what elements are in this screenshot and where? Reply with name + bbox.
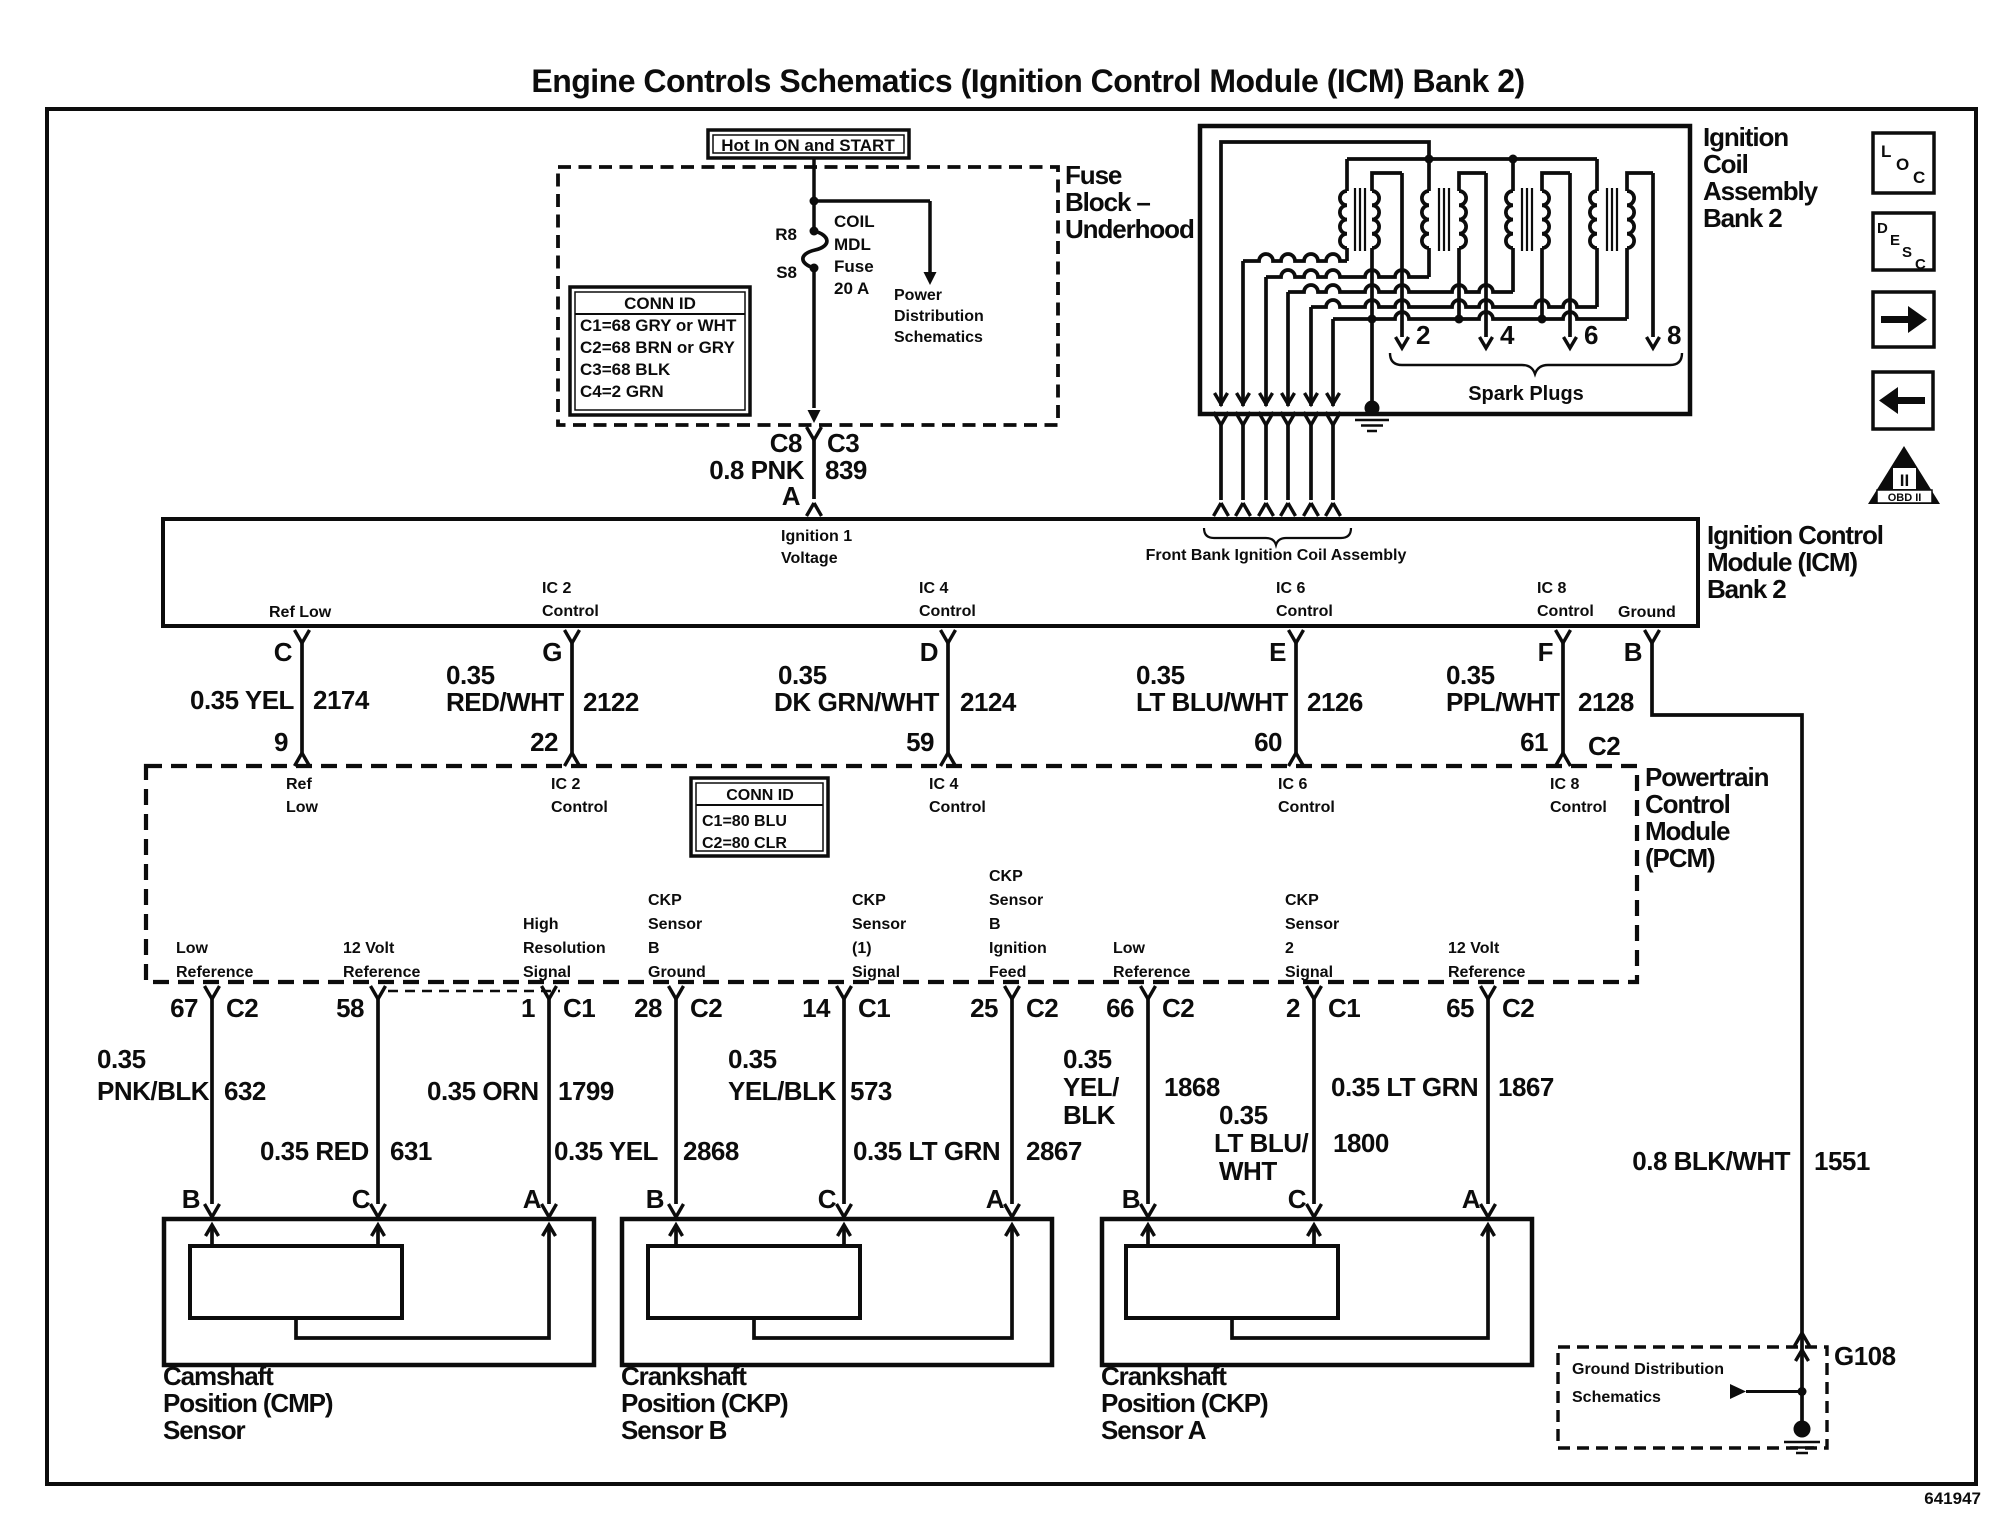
- svg-text:59: 59: [906, 727, 934, 757]
- wire: ground bus drop to case ground: [1370, 319, 1374, 404]
- CONN ID table (PCM): [691, 778, 828, 856]
- svg-text:B: B: [182, 1184, 200, 1214]
- svg-text:0.35 LT GRN: 0.35 LT GRN: [853, 1136, 1000, 1166]
- svg-text:Sensor A: Sensor A: [1101, 1415, 1207, 1445]
- wire E: ICM pin E to PCM pin 60: [1289, 630, 1304, 766]
- CKP B pin B arrow: [670, 1225, 683, 1246]
- transformer T4 (cyl 8 coil): [1590, 159, 1653, 319]
- svg-text:C2=68 BRN or GRY: C2=68 BRN or GRY: [580, 338, 735, 357]
- svg-text:IC 4: IC 4: [919, 580, 948, 597]
- wire G: ICM pin G to PCM pin 22: [565, 630, 580, 766]
- Fuse Block - Underhood dashed box: [558, 167, 1058, 425]
- ICM pin name: IC 8 Control: [1537, 580, 1594, 620]
- wire label 0.35 PPL/WHT: [1446, 660, 1560, 717]
- svg-text:CKP: CKP: [648, 892, 682, 909]
- wire: PCM pin 58 to CMP sensor C: [371, 986, 386, 1220]
- fuse F8 COIL MDL 20A element: [803, 227, 827, 273]
- wire: T4 primary return (with hops): [1311, 300, 1597, 307]
- svg-text:C: C: [1915, 256, 1926, 273]
- svg-text:Signal: Signal: [852, 964, 900, 981]
- label: Crankshaft Position (CKP) Sensor A: [1101, 1361, 1268, 1445]
- svg-text:66: 66: [1106, 993, 1134, 1023]
- svg-text:1: 1: [521, 993, 535, 1023]
- svg-text:61: 61: [1520, 727, 1548, 757]
- arrows at coil box bottom exits: [1215, 393, 1340, 404]
- label: Crankshaft Position (CKP) Sensor B: [621, 1361, 788, 1445]
- svg-text:Ground: Ground: [648, 964, 706, 981]
- svg-text:60: 60: [1254, 727, 1282, 757]
- svg-text:2128: 2128: [1578, 687, 1634, 717]
- svg-text:C2: C2: [690, 993, 722, 1023]
- arrow link to ground distribution schematics: [1730, 1384, 1807, 1399]
- CKP A sensor inner element box: [1126, 1246, 1338, 1318]
- svg-text:67: 67: [170, 993, 198, 1023]
- wire: PCM pin 65 to CKP A sensor A: [1481, 986, 1496, 1220]
- wire: PCM pin 67 to CMP sensor B: [205, 986, 220, 1220]
- ground symbol G108: [1784, 1421, 1820, 1454]
- PCM pin name: Low Reference (pin 66): [1113, 940, 1190, 981]
- svg-text:4: 4: [1500, 320, 1515, 350]
- svg-text:Control: Control: [1645, 789, 1730, 819]
- svg-text:2126: 2126: [1307, 687, 1363, 717]
- svg-text:DK GRN/WHT: DK GRN/WHT: [774, 687, 939, 717]
- icon: DESC button: [1873, 213, 1934, 273]
- node: ground bus junction T1: [1368, 315, 1377, 324]
- svg-text:CONN ID: CONN ID: [624, 294, 696, 313]
- svg-text:14: 14: [802, 993, 831, 1023]
- svg-text:1800: 1800: [1333, 1128, 1389, 1158]
- PCM pin name: CKP Sensor (1) Signal (pin 14): [852, 892, 906, 981]
- wire label 0.35 RED/WHT: [446, 660, 564, 717]
- wire label 0.35 PNK/BLK: [97, 1044, 210, 1106]
- svg-text:C: C: [1913, 168, 1925, 187]
- svg-text:G108: G108: [1834, 1341, 1896, 1371]
- svg-text:0.35: 0.35: [446, 660, 495, 690]
- wire: PCM pin 14 to CKP B sensor C: [837, 986, 852, 1220]
- svg-text:Schematics: Schematics: [894, 329, 983, 346]
- svg-text:0.35 YEL: 0.35 YEL: [190, 685, 295, 715]
- svg-text:Position (CKP): Position (CKP): [1101, 1388, 1268, 1418]
- svg-text:C1: C1: [563, 993, 595, 1023]
- PCM pin name: CKP Sensor B Ignition Feed (pin 25): [989, 868, 1047, 981]
- svg-text:Signal: Signal: [1285, 964, 1333, 981]
- svg-text:65: 65: [1446, 993, 1474, 1023]
- svg-text:641947: 641947: [1924, 1489, 1981, 1508]
- svg-text:IC 6: IC 6: [1278, 776, 1307, 793]
- svg-text:C4=2 GRN: C4=2 GRN: [580, 382, 664, 401]
- svg-text:Ignition: Ignition: [1703, 122, 1788, 152]
- svg-text:E: E: [1269, 637, 1286, 667]
- svg-text:D: D: [920, 637, 938, 667]
- wire: branch to power distribution schematics: [814, 201, 930, 272]
- svg-text:LT BLU/WHT: LT BLU/WHT: [1136, 687, 1289, 717]
- svg-text:C: C: [274, 637, 293, 667]
- svg-text:Ignition: Ignition: [989, 940, 1047, 957]
- PCM pin name: IC 8 Control: [1550, 776, 1607, 816]
- svg-text:1868: 1868: [1164, 1072, 1220, 1102]
- svg-text:O: O: [1896, 155, 1909, 174]
- svg-text:Ground: Ground: [1618, 604, 1676, 621]
- svg-text:25: 25: [970, 993, 998, 1023]
- svg-text:C: C: [818, 1184, 837, 1214]
- svg-text:0.35: 0.35: [1136, 660, 1185, 690]
- svg-text:0.35 RED: 0.35 RED: [260, 1136, 369, 1166]
- svg-text:Resolution: Resolution: [523, 940, 606, 957]
- svg-text:Bank 2: Bank 2: [1707, 574, 1786, 604]
- transformer T2 (cyl 4 coil): [1422, 159, 1486, 319]
- svg-text:12 Volt: 12 Volt: [343, 940, 395, 957]
- icon: LOC button: [1873, 133, 1934, 193]
- Crankshaft Position (CKP) Sensor B box: [622, 1219, 1052, 1365]
- svg-text:2122: 2122: [583, 687, 639, 717]
- svg-text:22: 22: [530, 727, 558, 757]
- svg-text:2: 2: [1286, 993, 1300, 1023]
- PCM pin name: IC 6 Control: [1278, 776, 1335, 816]
- wire: PCM pin 25 to CKP B sensor A: [1005, 986, 1020, 1220]
- svg-text:IC 6: IC 6: [1276, 580, 1305, 597]
- svg-text:CKP: CKP: [989, 868, 1023, 885]
- label: Ignition 1 Voltage: [781, 528, 852, 567]
- svg-text:IC 2: IC 2: [551, 776, 580, 793]
- svg-text:Reference: Reference: [1113, 964, 1190, 981]
- svg-text:B: B: [648, 940, 660, 957]
- svg-text:0.8 BLK/WHT: 0.8 BLK/WHT: [1632, 1146, 1790, 1176]
- wire: secondary ground bus (with hops): [1333, 312, 1627, 319]
- svg-text:Schematics: Schematics: [1572, 1389, 1661, 1406]
- CMP pin B arrow: [206, 1225, 219, 1246]
- svg-text:R8: R8: [775, 225, 797, 244]
- svg-text:8: 8: [1667, 320, 1681, 350]
- wire: PCM pin 2 to CKP A sensor C: [1307, 986, 1322, 1220]
- transformer T1 (cyl 2 coil): [1340, 159, 1402, 319]
- svg-text:573: 573: [850, 1076, 892, 1106]
- svg-text:BLK: BLK: [1063, 1100, 1116, 1130]
- svg-text:Control: Control: [919, 603, 976, 620]
- svg-text:Ref: Ref: [286, 776, 312, 793]
- svg-text:A: A: [523, 1184, 542, 1214]
- svg-text:0.35: 0.35: [728, 1044, 777, 1074]
- svg-text:A: A: [986, 1184, 1005, 1214]
- svg-text:Position (CKP): Position (CKP): [621, 1388, 788, 1418]
- coil feed wires 2-6 risers: [1241, 261, 1245, 406]
- svg-text:0.35 YEL: 0.35 YEL: [554, 1136, 659, 1166]
- svg-text:1799: 1799: [558, 1076, 614, 1106]
- svg-text:C1=68 GRY or WHT: C1=68 GRY or WHT: [580, 316, 737, 335]
- svg-text:28: 28: [634, 993, 662, 1023]
- svg-text:IC 8: IC 8: [1550, 776, 1579, 793]
- svg-text:Module: Module: [1645, 816, 1730, 846]
- svg-text:Bank 2: Bank 2: [1703, 203, 1782, 233]
- svg-text:YEL/BLK: YEL/BLK: [728, 1076, 836, 1106]
- svg-text:CONN ID: CONN ID: [726, 787, 794, 804]
- svg-text:Reference: Reference: [1448, 964, 1525, 981]
- wire label 0.35 DK GRN/WHT: [774, 660, 939, 717]
- svg-text:OBD II: OBD II: [1888, 492, 1922, 504]
- icon: OBD II badge: [1868, 446, 1940, 504]
- svg-text:Sensor: Sensor: [852, 916, 906, 933]
- svg-text:20 A: 20 A: [834, 279, 869, 298]
- svg-text:Control: Control: [1550, 799, 1607, 816]
- PCM pin name: 12 Volt Reference (pin 58): [343, 940, 420, 981]
- svg-text:Spark Plugs: Spark Plugs: [1468, 383, 1584, 405]
- node: bus junction at coil 2: [1425, 155, 1434, 164]
- svg-text:Control: Control: [929, 799, 986, 816]
- svg-text:Voltage: Voltage: [781, 550, 838, 567]
- svg-text:631: 631: [390, 1136, 432, 1166]
- svg-text:Feed: Feed: [989, 964, 1026, 981]
- PCM pin name: Low Reference (pin 67): [176, 940, 253, 981]
- svg-text:LT BLU/: LT BLU/: [1214, 1128, 1308, 1158]
- svg-text:Ignition Control: Ignition Control: [1707, 520, 1883, 550]
- arrow to power distribution schematics: [924, 272, 937, 285]
- svg-text:Control: Control: [1278, 799, 1335, 816]
- svg-text:2867: 2867: [1026, 1136, 1082, 1166]
- svg-text:C2: C2: [1026, 993, 1058, 1023]
- svg-text:MDL: MDL: [834, 235, 871, 254]
- svg-text:0.35: 0.35: [1219, 1100, 1268, 1130]
- Crankshaft Position (CKP) Sensor A box: [1102, 1219, 1532, 1365]
- wire: PCM pin 1 to CMP sensor A: [542, 986, 557, 1220]
- svg-text:C1: C1: [858, 993, 890, 1023]
- svg-text:Front Bank Ignition Coil Assem: Front Bank Ignition Coil Assembly: [1146, 547, 1407, 564]
- svg-text:Crankshaft: Crankshaft: [621, 1361, 747, 1391]
- svg-text:C1=80 BLU: C1=80 BLU: [702, 813, 787, 830]
- svg-text:COIL: COIL: [834, 212, 875, 231]
- label: Ground Distribution Schematics: [1572, 1361, 1724, 1406]
- svg-text:B: B: [1122, 1184, 1140, 1214]
- svg-text:L: L: [1881, 142, 1891, 161]
- svg-text:2124: 2124: [960, 687, 1017, 717]
- svg-text:Reference: Reference: [343, 964, 420, 981]
- CONN ID table (fuse block): [570, 287, 750, 415]
- svg-text:Control: Control: [542, 603, 599, 620]
- svg-text:CKP: CKP: [1285, 892, 1319, 909]
- svg-text:C2: C2: [226, 993, 258, 1023]
- wire: T3 primary return (with hops): [1288, 285, 1513, 292]
- icon: previous arrow button: [1873, 372, 1933, 429]
- PCM pin name: CKP Sensor B Ground (pin 28): [648, 892, 706, 981]
- svg-text:0.35 ORN: 0.35 ORN: [427, 1076, 539, 1106]
- svg-text:C2: C2: [1502, 993, 1534, 1023]
- svg-text:WHT: WHT: [1219, 1156, 1277, 1186]
- svg-text:C2: C2: [1162, 993, 1194, 1023]
- svg-text:Position (CMP): Position (CMP): [163, 1388, 333, 1418]
- svg-text:Reference: Reference: [176, 964, 253, 981]
- svg-text:B: B: [646, 1184, 664, 1214]
- ground: coil assembly case ground: [1355, 401, 1389, 432]
- svg-text:B: B: [989, 916, 1001, 933]
- PCM pin name: 12 Volt Reference (pin 65): [1448, 940, 1525, 981]
- svg-text:S: S: [1902, 244, 1912, 261]
- wire: PCM pin 28 to CKP B sensor B: [669, 986, 684, 1220]
- svg-text:Fuse: Fuse: [834, 257, 874, 276]
- svg-text:Underhood: Underhood: [1065, 214, 1194, 244]
- wire: fuse output down to fuse block edge: [812, 268, 816, 408]
- spark plug wire cyl 2: [1396, 173, 1409, 348]
- svg-text:A: A: [1462, 1184, 1481, 1214]
- svg-text:2868: 2868: [683, 1136, 739, 1166]
- PCM dashed box: [146, 766, 1637, 982]
- wire F: ICM pin F to PCM pin 61: [1556, 630, 1571, 766]
- svg-text:IC 4: IC 4: [929, 776, 958, 793]
- wire C: ICM pin C to PCM pin 9: [295, 630, 310, 766]
- svg-text:Sensor: Sensor: [648, 916, 702, 933]
- svg-text:C1: C1: [1328, 993, 1360, 1023]
- svg-text:Signal: Signal: [523, 964, 571, 981]
- svg-text:9: 9: [274, 727, 288, 757]
- scan artifact dashed jog near pin 58: [388, 990, 560, 993]
- connector forks below coil box and wires down to ICM: [1214, 412, 1341, 516]
- label: Power Distribution Schematics: [894, 287, 984, 346]
- ICM pin name: IC 6 Control: [1276, 580, 1333, 620]
- svg-text:Crankshaft: Crankshaft: [1101, 1361, 1227, 1391]
- svg-text:Sensor: Sensor: [989, 892, 1043, 909]
- svg-text:YEL/: YEL/: [1063, 1072, 1119, 1102]
- wire label 0.35 YEL/BLK: [1063, 1044, 1119, 1130]
- svg-text:RED/WHT: RED/WHT: [446, 687, 564, 717]
- PCM pin name: High Resolution Signal (pin 1): [523, 916, 606, 981]
- wire: T1 primary return (with hops): [1243, 254, 1347, 261]
- svg-text:Low: Low: [176, 940, 209, 957]
- ICM box: [163, 519, 1698, 626]
- node: ground bus junction T3: [1538, 315, 1547, 324]
- svg-text:2: 2: [1285, 940, 1294, 957]
- label: Ignition Control Module (ICM) Bank 2: [1707, 520, 1883, 604]
- svg-text:Low: Low: [1113, 940, 1146, 957]
- svg-text:D: D: [1877, 220, 1888, 237]
- svg-text:G: G: [542, 637, 562, 667]
- svg-text:C8: C8: [770, 428, 802, 458]
- PCM pin name: IC 4 Control: [929, 776, 986, 816]
- svg-text:Engine Controls Schematics (Ig: Engine Controls Schematics (Ignition Con…: [531, 63, 1524, 99]
- CKP A pin C arrow: [1308, 1225, 1321, 1246]
- svg-text:C: C: [1288, 1184, 1307, 1214]
- svg-text:0.35: 0.35: [1063, 1044, 1112, 1074]
- wire B: ICM ground pin B to G108: [1645, 630, 1803, 1424]
- svg-text:E: E: [1890, 232, 1900, 249]
- svg-text:CKP: CKP: [852, 892, 886, 909]
- CKP B pin A arrow and internal loop: [754, 1225, 1019, 1338]
- icon: next arrow button: [1873, 292, 1934, 347]
- svg-text:II: II: [1900, 471, 1909, 490]
- svg-text:C3: C3: [827, 428, 859, 458]
- svg-text:IC 2: IC 2: [542, 580, 571, 597]
- brace: spark plugs group: [1390, 353, 1682, 374]
- svg-text:0.35: 0.35: [97, 1044, 146, 1074]
- svg-text:0.35 LT GRN: 0.35 LT GRN: [1331, 1072, 1478, 1102]
- svg-text:Powertrain: Powertrain: [1645, 762, 1769, 792]
- wire: PCM pin 66 to CKP A sensor B: [1141, 986, 1156, 1220]
- wire label 0.35 LT BLU/WHT: [1214, 1100, 1308, 1186]
- svg-text:0.35: 0.35: [1446, 660, 1495, 690]
- svg-text:IC 8: IC 8: [1537, 580, 1566, 597]
- svg-text:Control: Control: [1537, 603, 1594, 620]
- svg-text:Assembly: Assembly: [1703, 176, 1819, 206]
- svg-text:Ground Distribution: Ground Distribution: [1572, 1361, 1724, 1378]
- connector C8/C3 on ignition feed wire: [807, 427, 822, 516]
- svg-text:Power: Power: [894, 287, 942, 304]
- PCM pin name: CKP Sensor 2 Signal (pin 2): [1285, 892, 1339, 981]
- CMP sensor inner element box: [190, 1246, 402, 1318]
- node: junction dot to power distribution branch: [810, 197, 819, 206]
- svg-text:Sensor: Sensor: [163, 1415, 246, 1445]
- svg-text:(1): (1): [852, 940, 872, 957]
- spark plug wire cyl 6: [1564, 173, 1577, 348]
- wire label 0.35 YEL/BLK: [728, 1044, 836, 1106]
- svg-text:C3=68 BLK: C3=68 BLK: [580, 360, 671, 379]
- CKP A pin A arrow and internal loop: [1232, 1225, 1495, 1338]
- svg-text:Control: Control: [1276, 603, 1333, 620]
- svg-text:PNK/BLK: PNK/BLK: [97, 1076, 210, 1106]
- label: Fuse Block - Underhood: [1065, 160, 1194, 244]
- svg-text:1551: 1551: [1814, 1146, 1870, 1176]
- spark plug wire cyl 4: [1480, 173, 1493, 348]
- Hot In ON and START box: [708, 130, 909, 158]
- ignition coil assembly box: [1200, 126, 1690, 414]
- svg-text:C: C: [352, 1184, 371, 1214]
- ICM pin name: IC 4 Control: [919, 580, 976, 620]
- CKP A pin B arrow: [1142, 1225, 1155, 1246]
- transformer T3 (cyl 6 coil): [1506, 159, 1570, 319]
- connector fork at G108 box entry: [1795, 1333, 1810, 1361]
- svg-text:Module (ICM): Module (ICM): [1707, 547, 1857, 577]
- CKP B sensor inner element box: [648, 1246, 860, 1318]
- svg-text:Sensor B: Sensor B: [621, 1415, 727, 1445]
- label: Camshaft Position (CMP) Sensor: [163, 1361, 333, 1445]
- svg-text:12 Volt: 12 Volt: [1448, 940, 1500, 957]
- svg-text:6: 6: [1584, 320, 1598, 350]
- label: COIL MDL Fuse 20 A: [834, 212, 875, 298]
- svg-text:C2=80 CLR: C2=80 CLR: [702, 835, 787, 852]
- CKP B pin C arrow: [838, 1225, 851, 1246]
- wire label 0.35 LT BLU/WHT: [1136, 660, 1289, 717]
- svg-text:C2: C2: [1588, 731, 1620, 761]
- svg-text:B: B: [1624, 637, 1642, 667]
- ICM pin name: IC 2 Control: [542, 580, 599, 620]
- svg-text:A: A: [782, 481, 801, 511]
- svg-text:Sensor: Sensor: [1285, 916, 1339, 933]
- brace: front bank ignition coil assembly: [1204, 528, 1351, 545]
- svg-text:2174: 2174: [313, 685, 370, 715]
- svg-text:Camshaft: Camshaft: [163, 1361, 274, 1391]
- label: Ignition Coil Assembly Bank 2: [1703, 122, 1819, 233]
- svg-text:Distribution: Distribution: [894, 308, 984, 325]
- CMP pin C arrow: [372, 1225, 385, 1246]
- svg-text:Ignition 1: Ignition 1: [781, 528, 852, 545]
- wire: 12V feed riser (wire 1): [1221, 142, 1429, 406]
- svg-text:839: 839: [825, 455, 867, 485]
- svg-text:PPL/WHT: PPL/WHT: [1446, 687, 1560, 717]
- svg-text:(PCM): (PCM): [1645, 843, 1715, 873]
- svg-text:S8: S8: [776, 263, 797, 282]
- svg-text:F: F: [1538, 637, 1553, 667]
- svg-text:Ref Low: Ref Low: [269, 604, 332, 621]
- wire D: ICM pin D to PCM pin 59: [941, 630, 956, 766]
- spark plug wire cyl 8: [1647, 173, 1660, 348]
- PCM pin name: Ref Low: [286, 776, 319, 816]
- svg-text:Low: Low: [286, 799, 319, 816]
- svg-text:Hot In ON and START: Hot In ON and START: [721, 136, 895, 155]
- CMP pin A arrow and internal loop: [296, 1225, 556, 1338]
- svg-text:High: High: [523, 916, 559, 933]
- svg-text:Block –: Block –: [1065, 187, 1150, 217]
- PCM pin name: IC 2 Control: [551, 776, 608, 816]
- label: Powertrain Control Module (PCM): [1645, 762, 1769, 873]
- wire: ignition feed from Hot box down to fuse: [812, 158, 816, 227]
- primary bus wire: [1347, 157, 1597, 161]
- svg-text:0.35: 0.35: [778, 660, 827, 690]
- svg-text:1867: 1867: [1498, 1072, 1554, 1102]
